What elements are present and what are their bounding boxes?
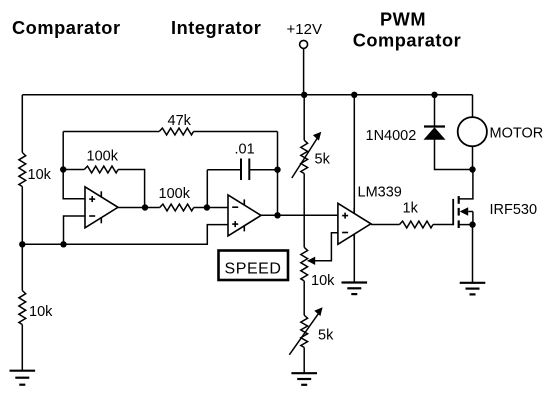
svg-text:.01: .01 bbox=[235, 142, 255, 158]
svg-text:1k: 1k bbox=[403, 201, 419, 217]
ground (MOSFET source) bbox=[460, 282, 486, 284]
op-amp U1 comparator bbox=[85, 187, 118, 228]
node: drain/motor/diode junction bbox=[469, 166, 475, 172]
wire: VR2 wiper to LM339 - input bbox=[314, 233, 338, 261]
transistor Q1 IRF530 MOSFET bbox=[453, 196, 537, 228]
ground (VR3) bbox=[291, 372, 317, 374]
capacitor C1 .01 bbox=[235, 142, 255, 181]
svg-text:Comparator: Comparator bbox=[353, 31, 462, 51]
wire: node A down to comparator + input bbox=[63, 170, 85, 199]
resistor R7 1k bbox=[400, 201, 434, 228]
wire: +12V terminal drop bbox=[303, 49, 305, 95]
svg-text:Comparator: Comparator bbox=[12, 18, 121, 38]
ground (LM339 V-) bbox=[342, 281, 368, 283]
svg-text:100k: 100k bbox=[87, 149, 119, 165]
wire: MOSFET source to source node bbox=[459, 224, 473, 226]
resistor R1 10k (upper left) bbox=[19, 153, 26, 187]
svg-text:5k: 5k bbox=[318, 328, 334, 344]
wire: bottom rail to integrator + input bbox=[22, 225, 228, 245]
wire: left rail lower (node to R4) bbox=[21, 244, 23, 290]
resistor R2 100k (comparator feedback) bbox=[63, 149, 118, 173]
wire: LM339 output to R7 bbox=[371, 224, 400, 226]
wire: VR3 bottom to ground bbox=[303, 347, 305, 373]
wire: integrator - node up to cap bbox=[206, 170, 208, 208]
terminal +12V bbox=[287, 21, 322, 49]
node: cap / 47k junction bbox=[274, 167, 280, 173]
resistor R5 47k bbox=[159, 128, 193, 135]
svg-text:47k: 47k bbox=[168, 113, 192, 129]
node: rail/+12V/VR1 junction bbox=[301, 92, 307, 98]
wire: source node to ground bbox=[472, 225, 474, 283]
wire: motor bottom to drain node bbox=[472, 146, 474, 169]
wire: cap node vertical drop bbox=[277, 132, 279, 170]
resistor R3 100k (series) bbox=[159, 186, 194, 211]
svg-text:IRF530: IRF530 bbox=[490, 202, 538, 218]
wire: LM339 V+ supply from rail bbox=[353, 95, 355, 214]
resistor R4 10k (lower left) bbox=[19, 291, 26, 325]
wire: output node to R3 bbox=[145, 207, 160, 209]
label box SPEED bbox=[219, 251, 289, 281]
svg-text:PWM: PWM bbox=[380, 10, 426, 30]
wire: R7 to MOSFET gate bbox=[433, 224, 453, 226]
wire: cap left lead bbox=[207, 169, 241, 171]
node A: comparator + / R2 / 47k bbox=[60, 166, 66, 172]
wire: VR1 bottom to VR2 top bbox=[303, 174, 305, 248]
ground (left rail) bbox=[10, 370, 36, 372]
wire: left rail upper (top rail to R1) bbox=[21, 95, 23, 153]
svg-text:10k: 10k bbox=[28, 167, 52, 183]
node: comparator - / bottom rail bbox=[60, 241, 66, 247]
potentiometer VR1 5k (upper) bbox=[292, 132, 331, 178]
node: MOSFET source junction bbox=[469, 221, 475, 227]
wire: 47k feed line (node A to cap node) bbox=[63, 131, 159, 133]
wire: R3 to integrator - input bbox=[194, 207, 228, 209]
wire: R2 feedback right leg down to output node bbox=[118, 170, 145, 208]
wire: R4 to ground bbox=[21, 325, 23, 371]
svg-text:MOTOR: MOTOR bbox=[490, 126, 544, 142]
node: rail/diode junction bbox=[431, 92, 437, 98]
diode D1 1N4002 bbox=[366, 127, 446, 145]
wire: drain node down to MOSFET drain bbox=[459, 170, 473, 199]
wire: top +12V rail bbox=[22, 94, 472, 96]
svg-text:1N4002: 1N4002 bbox=[366, 128, 417, 144]
wire: cap node down to integrator output node bbox=[277, 170, 279, 216]
wire: rail to diode cathode bbox=[434, 95, 436, 126]
wire: comparator - input to bottom rail bbox=[64, 216, 86, 244]
svg-text:100k: 100k bbox=[159, 186, 191, 202]
section title: PWM Comparator bbox=[353, 10, 462, 51]
wire: integrator output to LM339 + input bbox=[260, 214, 338, 216]
potentiometer VR3 5k (lower) bbox=[289, 307, 334, 355]
node: integrator output bbox=[274, 212, 280, 218]
op-amp U2 integrator bbox=[228, 195, 261, 236]
wire: rail to VR1 top bbox=[303, 95, 305, 140]
wire: comparator output lead bbox=[118, 207, 145, 209]
wire: VR2 bottom to VR3 top bbox=[303, 281, 305, 315]
svg-text:Integrator: Integrator bbox=[171, 18, 261, 38]
potentiometer VR2 10k (speed pot) bbox=[301, 247, 335, 289]
motor M1 bbox=[458, 117, 544, 146]
wire: rail corner down to motor bbox=[472, 95, 474, 117]
wire: left rail middle (R1 to bottom rail) bbox=[21, 187, 23, 245]
svg-text:LM339: LM339 bbox=[358, 185, 402, 201]
wire: node A vertical to 47k line bbox=[62, 132, 64, 170]
svg-text:10k: 10k bbox=[311, 273, 335, 289]
node: comparator output bbox=[142, 204, 148, 210]
wire: LM339 V- to ground bbox=[353, 234, 355, 282]
node: left rail / bottom rail bbox=[19, 241, 25, 247]
svg-text:+12V: +12V bbox=[287, 21, 322, 38]
svg-text:5k: 5k bbox=[315, 152, 331, 168]
wire: cap right lead bbox=[249, 169, 277, 171]
svg-text:10k: 10k bbox=[29, 304, 53, 320]
op-amp U3 LM339 PWM comparator bbox=[338, 203, 371, 244]
wire: diode anode down and right to drain node bbox=[435, 140, 473, 170]
node: rail/LM339 V+ junction bbox=[351, 92, 357, 98]
svg-text:SPEED: SPEED bbox=[225, 261, 282, 278]
node: integrator - input bbox=[204, 204, 210, 210]
